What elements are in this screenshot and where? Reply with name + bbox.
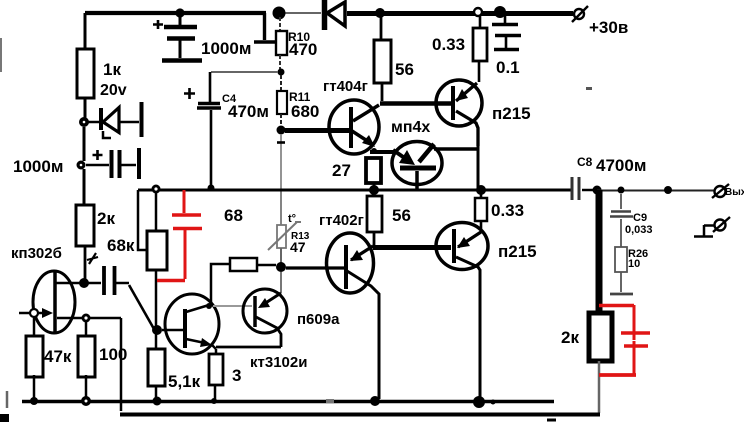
- wire: [83, 169, 86, 205]
- svg-text:C9: C9: [633, 212, 647, 224]
- svg-text:0.33: 0.33: [491, 201, 524, 220]
- svg-text:1000м: 1000м: [201, 39, 251, 58]
- svg-text:п609а: п609а: [297, 311, 340, 328]
- node E (0.1 cap top): [494, 6, 506, 18]
- transistor мп4х U2: [370, 119, 478, 189]
- svg-text:гт402г: гт402г: [319, 212, 364, 229]
- node D ring (0.33 top): [474, 8, 482, 16]
- wire ground rail 2: [120, 413, 600, 417]
- terminal Вых: [712, 184, 744, 198]
- transistor п215 (upper): [436, 80, 531, 146]
- node F donut: [79, 117, 89, 127]
- svg-text:100: 100: [99, 345, 127, 364]
- svg-text:0,033: 0,033: [625, 224, 653, 236]
- capacitor C8 4700м: [572, 155, 646, 200]
- wire C4 top: [211, 71, 278, 73]
- svg-text:мп4х: мп4х: [391, 119, 430, 136]
- svg-text:Вых: Вых: [725, 187, 744, 198]
- resistor R26 10: [615, 247, 648, 292]
- node I (C4 to mid wire): [208, 185, 215, 192]
- resistor 68: [224, 206, 276, 271]
- mark x: [87, 253, 98, 264]
- wire mid rail: [138, 189, 571, 192]
- node S (C9 top): [618, 187, 625, 194]
- svg-text:t°: t°: [288, 213, 296, 225]
- resistor 2к (right): [561, 313, 612, 413]
- capacitor C9 0,033: [610, 194, 653, 247]
- resistor 5,1к: [148, 334, 201, 399]
- resistor 3: [209, 349, 241, 399]
- svg-text:56: 56: [392, 206, 411, 225]
- svg-text:кп302б: кп302б: [11, 245, 62, 262]
- node A (cap 1000m top): [175, 8, 184, 17]
- capacitor 1000м (top filter): [153, 13, 251, 61]
- svg-text:470: 470: [289, 40, 317, 59]
- node C (R56 top): [375, 8, 385, 18]
- node H (R10/R11): [278, 69, 285, 76]
- terminal gnd out: [694, 217, 730, 237]
- thermistor R13 47: [268, 213, 310, 263]
- node O (68к bottom junction): [152, 325, 162, 335]
- wire (п215 emitter down): [477, 127, 480, 188]
- node Q (base гт402г): [276, 262, 286, 272]
- wire ground rail 1: [22, 400, 554, 404]
- svg-text:гт404г: гт404г: [323, 78, 368, 95]
- node R (C8 out): [593, 186, 602, 195]
- svg-text:680: 680: [291, 102, 319, 121]
- wire base гт404г: [285, 128, 350, 133]
- wire top +30v rail: [85, 11, 266, 15]
- node K (27 bottom): [369, 185, 379, 195]
- resistor 47к: [26, 317, 72, 399]
- resistor 2к (left): [76, 205, 115, 281]
- capacitor red (left, marker): [157, 190, 202, 281]
- transistor п215 (lower): [436, 223, 537, 401]
- node G donut: [77, 161, 86, 170]
- resistor 0.33 (lower): [475, 190, 524, 231]
- wire (node Q down to п609а): [280, 272, 282, 293]
- transistor кт3102и Q2: [162, 294, 307, 371]
- diode VD1 on top rail: [325, 0, 346, 30]
- resistor 56 (lower): [367, 190, 411, 246]
- wire output: [597, 190, 714, 192]
- resistor 100: [78, 322, 127, 399]
- wire L-shape to 68к left: [138, 190, 146, 250]
- resistor 27: [332, 148, 381, 187]
- svg-text:4700м: 4700м: [596, 156, 646, 175]
- resistor R10 470: [276, 17, 317, 69]
- wire (кт3102и collector up to 68): [211, 264, 230, 303]
- svg-text:68к: 68к: [107, 236, 135, 255]
- svg-text:5,1к: 5,1к: [168, 372, 201, 391]
- capacitor red (right, marker): [599, 305, 650, 375]
- svg-text:470м: 470м: [228, 102, 269, 121]
- svg-text:0.1: 0.1: [496, 58, 520, 77]
- transistor гт402г U3: [319, 212, 379, 399]
- resistor 56 (upper): [374, 15, 414, 101]
- wire (node J down): [280, 134, 282, 190]
- wire (node R down thick): [596, 190, 603, 315]
- resistor R11 680: [277, 75, 319, 127]
- capacitor 0.1: [492, 13, 521, 77]
- svg-text:47: 47: [290, 239, 306, 255]
- svg-text:C8: C8: [577, 155, 593, 169]
- svg-text:1000м: 1000м: [13, 157, 63, 176]
- svg-text:п215: п215: [498, 242, 537, 261]
- transistor п609а Q3: [213, 289, 340, 347]
- terminal +30в: [572, 6, 628, 37]
- wire (56 to п215 base): [380, 101, 451, 106]
- wire (node Q to гт402г base): [286, 266, 344, 269]
- node M ring (68к top): [152, 185, 161, 194]
- svg-text:кт3102и: кт3102и: [250, 354, 307, 371]
- svg-text:56: 56: [395, 60, 414, 79]
- resistor 1к 20v: [77, 13, 127, 118]
- wire (гт402г collector to п215 base): [373, 245, 451, 250]
- svg-text:47к: 47к: [44, 347, 72, 366]
- svg-text:20v: 20v: [100, 82, 127, 99]
- svg-text:27: 27: [332, 161, 351, 180]
- svg-text:1к: 1к: [103, 60, 121, 79]
- capacitor 1000м (left input filter): [13, 148, 139, 179]
- capacitor C4 470м: [184, 72, 269, 186]
- node rail dots: [30, 397, 38, 405]
- scan artifacts: [0, 38, 2, 72]
- node J (R11 bottom / base гт404г): [277, 126, 286, 135]
- svg-text:0.33: 0.33: [432, 35, 465, 54]
- resistor 68к: [107, 193, 167, 326]
- wire diagonal (cap to node O): [129, 285, 154, 329]
- transistor гт404г U1: [323, 78, 379, 154]
- svg-text:10: 10: [628, 258, 640, 270]
- svg-text:3: 3: [232, 366, 241, 385]
- svg-text:2к: 2к: [561, 328, 579, 347]
- svg-text:п215: п215: [492, 104, 531, 123]
- node B (R10 top): [273, 7, 286, 20]
- svg-text:2к: 2к: [97, 209, 115, 228]
- ground R26: [610, 293, 633, 296]
- transistor кп302б Q1 FET: [11, 245, 82, 333]
- svg-text:+30в: +30в: [589, 18, 628, 37]
- capacitor input: [88, 266, 129, 295]
- wire: [83, 127, 86, 161]
- node L (п215 emitter / 0.33): [476, 185, 486, 195]
- node T: [664, 186, 672, 194]
- node P ring (FET source): [82, 314, 91, 323]
- wire (source to rail2): [90, 318, 121, 411]
- resistor 0.33 (upper): [432, 15, 487, 82]
- node N (2к bottom / FET drain): [79, 278, 89, 288]
- diode VD2 (left): [88, 102, 142, 138]
- svg-text:68: 68: [224, 206, 243, 225]
